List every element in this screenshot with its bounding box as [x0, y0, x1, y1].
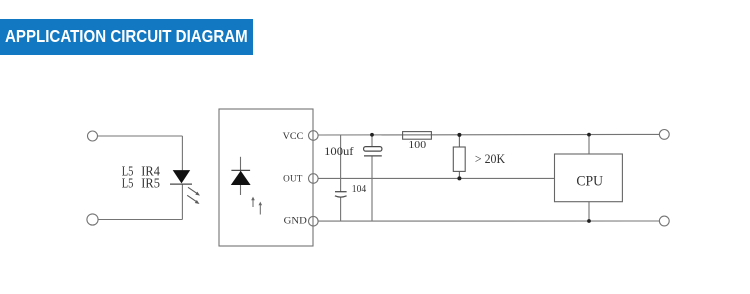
svg-text:CPU: CPU: [576, 173, 603, 189]
svg-text:L5: L5: [122, 175, 134, 190]
svg-text:> 20K: > 20K: [475, 151, 506, 166]
svg-text:VCC: VCC: [283, 131, 304, 141]
svg-text:GND: GND: [284, 216, 308, 226]
svg-text:OUT: OUT: [283, 173, 303, 183]
svg-text:100uf: 100uf: [324, 146, 354, 158]
svg-text:IR5: IR5: [141, 175, 160, 190]
svg-text:104: 104: [352, 184, 367, 195]
svg-text:100: 100: [408, 140, 426, 151]
